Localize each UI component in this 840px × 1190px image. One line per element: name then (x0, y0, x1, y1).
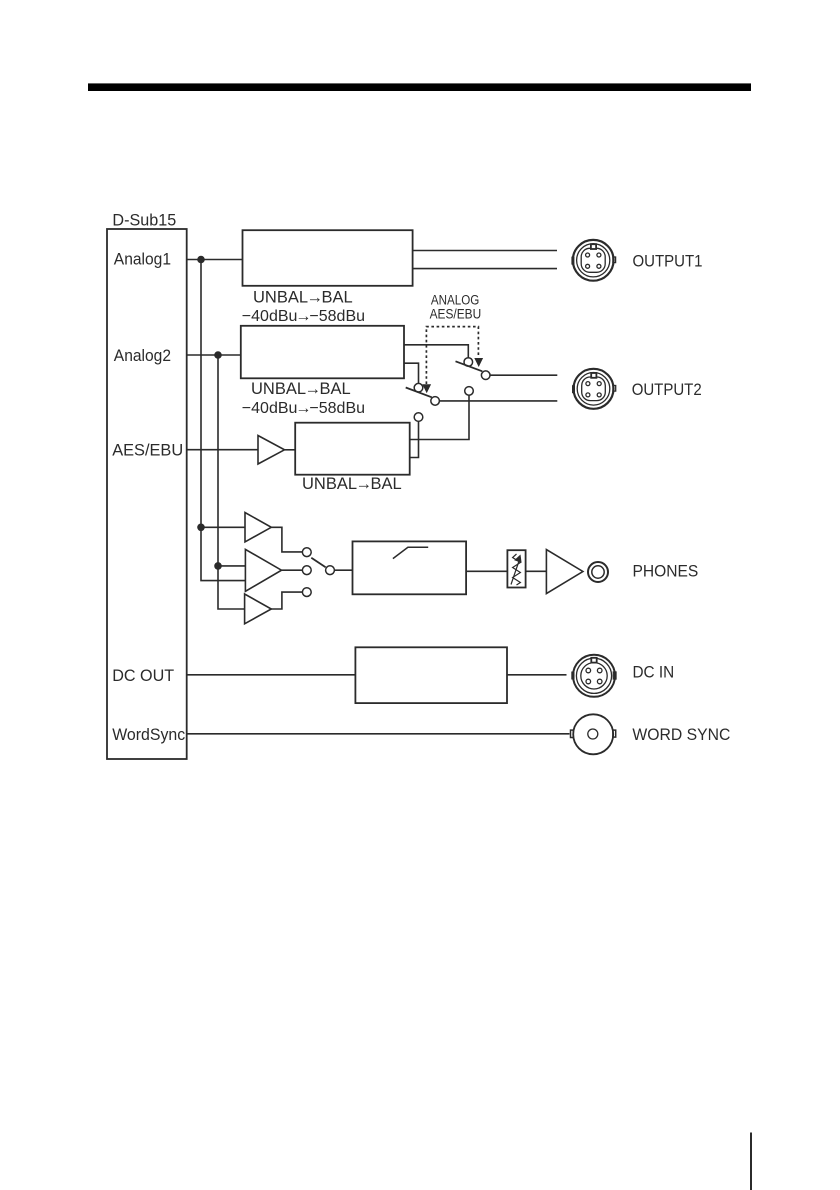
connector WORD SYNC BNC (571, 714, 616, 754)
volume control (507, 550, 525, 587)
wire S1 to OUTPUT2 hot (490, 374, 557, 376)
wire AES hot to contact (410, 395, 469, 439)
wire filter to volume (466, 570, 507, 572)
wire volume to headphone amp (526, 570, 547, 572)
wire S2 to OUTPUT2 cold (439, 400, 557, 402)
amplifier block A1 (243, 230, 413, 286)
wire to headphone amp T2 (218, 565, 245, 567)
svg-text:−40dBu→−58dBu: −40dBu→−58dBu (242, 400, 365, 417)
switch S1 contact b (481, 371, 490, 380)
svg-text:WordSync: WordSync (112, 725, 185, 744)
dashed selector line (426, 327, 478, 384)
wire Analog2 to amp A2 (187, 354, 241, 356)
svg-text:AES/EBU: AES/EBU (112, 441, 183, 460)
svg-text:UNBAL→BAL: UNBAL→BAL (251, 380, 351, 398)
svg-text:D-Sub15: D-Sub15 (112, 211, 176, 230)
D-Sub15 connector box (107, 229, 187, 759)
junction node Analog2 (214, 351, 222, 359)
svg-text:−40dBu→−58dBu: −40dBu→−58dBu (242, 308, 365, 325)
contact AES hot (465, 387, 474, 396)
svg-text:OUTPUT2: OUTPUT2 (632, 380, 702, 399)
regulator block (355, 647, 507, 703)
junction node Analog1 (197, 256, 205, 264)
wire DC OUT to regulator (187, 674, 356, 676)
svg-text:ANALOG: ANALOG (431, 292, 479, 307)
junction node phones 2 (214, 562, 222, 570)
switch S2 contact a (414, 383, 423, 392)
contact AES cold (414, 413, 423, 422)
contact c2 (302, 566, 311, 575)
svg-text:OUTPUT1: OUTPUT1 (633, 252, 703, 271)
svg-text:PHONES: PHONES (633, 562, 699, 581)
bus wire Analog1 vertical (201, 260, 245, 581)
headphone amp T3 (245, 594, 272, 624)
wire AES/EBU input (187, 449, 258, 451)
switch S1 lever (456, 361, 483, 371)
svg-text:UNBAL→BAL: UNBAL→BAL (302, 475, 402, 493)
switch S2 lever (406, 388, 432, 398)
footer rule (750, 1133, 752, 1190)
headphone output amp (546, 550, 583, 594)
wire T3 to contact c3 (271, 592, 302, 609)
wire AES cold to contact (410, 421, 419, 457)
connector DC IN (571, 655, 616, 697)
wire WordSync to BNC (187, 733, 570, 735)
wire Analog1 to amp A1 (187, 259, 243, 261)
wire A2 output hot to switch S1 (404, 345, 468, 358)
wire to headphone amp T1 (201, 526, 245, 528)
wire A1 output hot (413, 250, 557, 252)
svg-text:DC OUT: DC OUT (112, 666, 174, 685)
switch S3 lever (311, 558, 325, 567)
contact c3 (302, 588, 311, 597)
AES output block (295, 423, 410, 475)
filter block (353, 541, 467, 594)
wire A1 output cold (413, 268, 557, 270)
amplifier block A2 (241, 326, 404, 379)
wire A2 output cold to switch S2 (404, 363, 419, 383)
bus wire Analog2 vertical (218, 355, 245, 609)
connector OUTPUT2 (572, 369, 616, 409)
wire regulator to DC IN (507, 674, 567, 676)
wire driver to AES box (285, 449, 296, 451)
svg-text:AES/EBU: AES/EBU (430, 306, 482, 321)
connector PHONES jack (588, 562, 608, 582)
junction node phones 1 (197, 524, 205, 532)
top rule (88, 83, 751, 91)
contact c1 (302, 548, 311, 557)
switch S1 contact a (464, 358, 473, 367)
filter curve symbol (393, 547, 428, 558)
svg-text:Analog1: Analog1 (114, 250, 171, 269)
switch S3 common contact (326, 566, 335, 575)
headphone amp T1 (245, 513, 271, 542)
arrowhead left (422, 384, 431, 393)
arrowhead right (474, 358, 483, 367)
AES driver triangle (258, 436, 285, 465)
wire S3 to filter (334, 569, 352, 571)
svg-text:Analog2: Analog2 (114, 346, 171, 365)
svg-text:DC IN: DC IN (633, 663, 675, 682)
connector OUTPUT1 (571, 240, 615, 281)
svg-text:UNBAL→BAL: UNBAL→BAL (253, 289, 353, 307)
wire T1 to contact c1 (271, 527, 302, 552)
switch S2 contact b (431, 397, 440, 406)
wire T2 to contact c2 (282, 569, 303, 571)
svg-text:WORD SYNC: WORD SYNC (632, 725, 730, 744)
headphone amp T2 (245, 549, 281, 591)
